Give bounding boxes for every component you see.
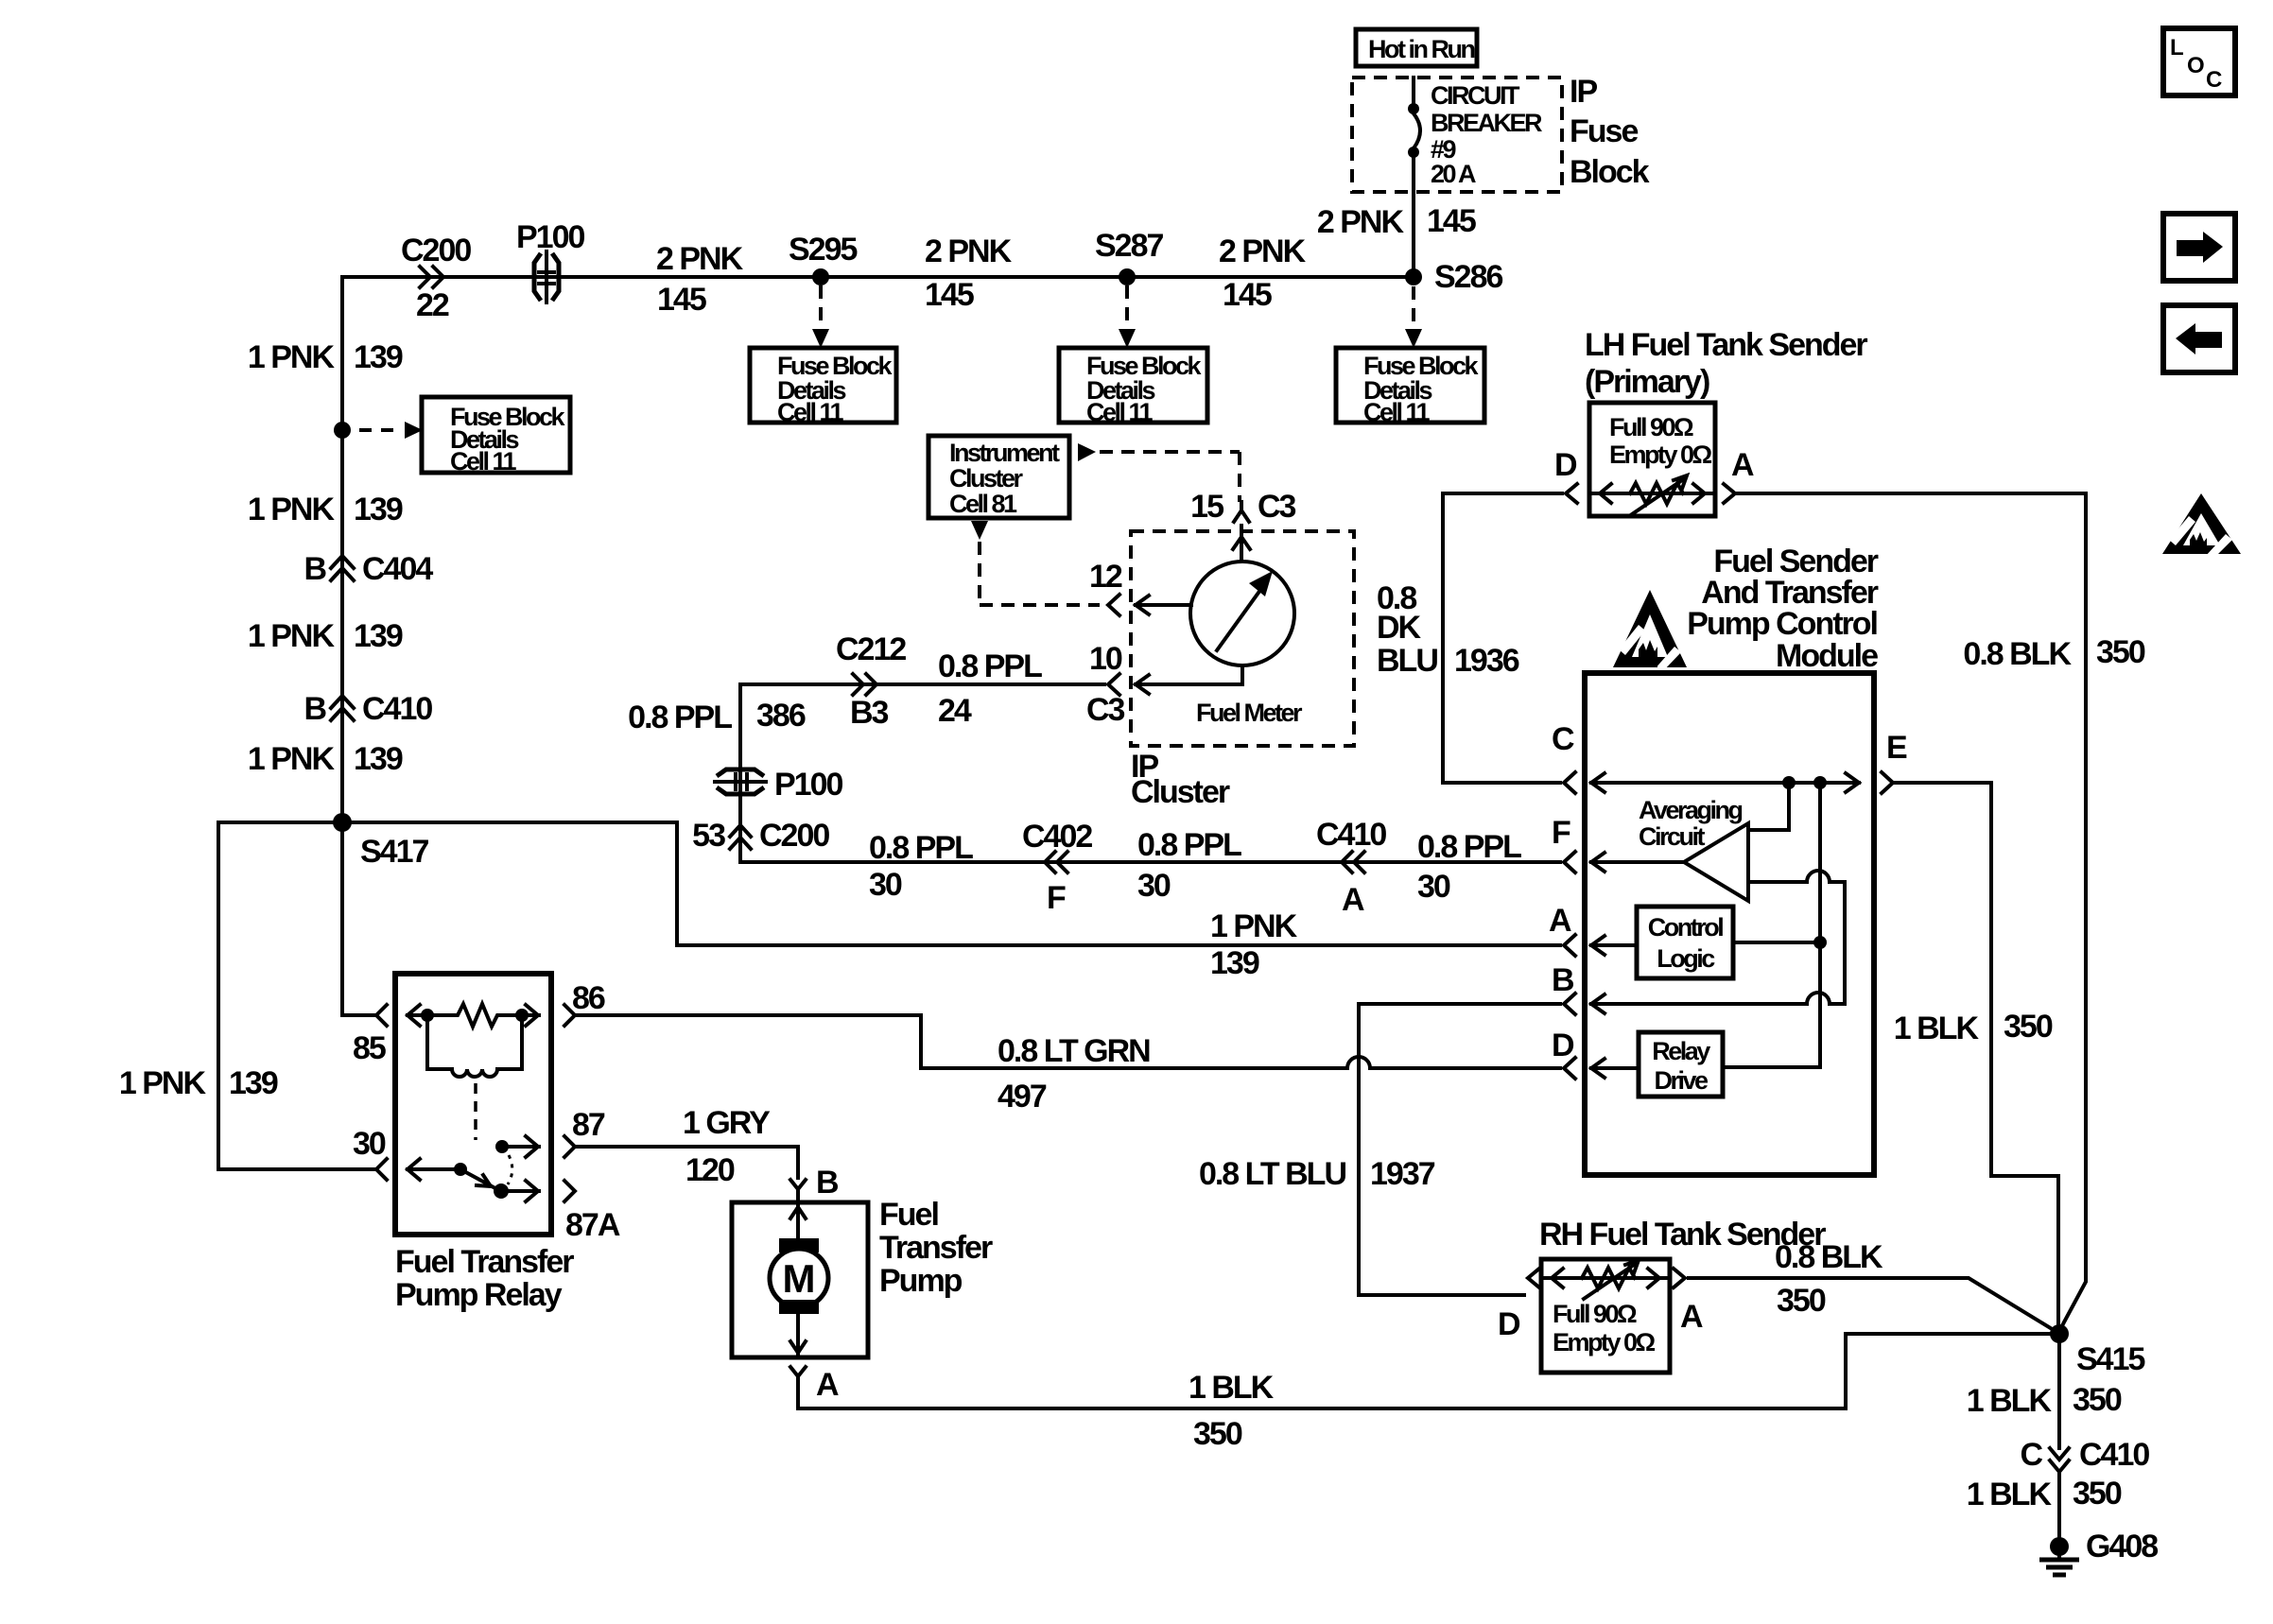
svg-text:86: 86 bbox=[572, 980, 605, 1016]
dashed drop from S286 bbox=[1405, 286, 1422, 348]
svg-text:C3: C3 bbox=[1086, 692, 1125, 728]
IP cluster dashed outline bbox=[1131, 531, 1354, 810]
svg-text:S287: S287 bbox=[1095, 228, 1163, 264]
svg-text:D: D bbox=[1552, 1028, 1574, 1063]
svg-text:1 PNK: 1 PNK bbox=[248, 618, 336, 654]
svg-text:Averaging: Averaging bbox=[1639, 796, 1743, 824]
svg-text:C200: C200 bbox=[401, 233, 471, 268]
svg-text:Drive: Drive bbox=[1654, 1066, 1709, 1095]
svg-text:139: 139 bbox=[354, 492, 403, 527]
svg-text:E: E bbox=[1886, 730, 1907, 766]
svg-text:B: B bbox=[304, 551, 326, 587]
svg-text:10: 10 bbox=[1089, 641, 1122, 677]
module pin B bbox=[1552, 962, 1845, 1014]
wire label 0.8 DK BLU 1936 bbox=[1377, 580, 1519, 679]
LH fuel tank sender label bbox=[1585, 327, 1867, 400]
svg-text:B: B bbox=[1552, 962, 1574, 998]
circuit breaker #9 20A bbox=[1408, 78, 1542, 275]
svg-text:2 PNK: 2 PNK bbox=[1219, 233, 1307, 269]
wire label 0.8 PPL 386 bbox=[628, 698, 806, 735]
connector C3 pin 15 bbox=[1190, 489, 1295, 525]
svg-text:CIRCUIT: CIRCUIT bbox=[1431, 81, 1520, 110]
relay coil resistor bbox=[408, 1004, 539, 1027]
module internal C-E bus bbox=[1591, 773, 1859, 792]
fuse block details box (left) bbox=[422, 397, 570, 475]
svg-text:Control: Control bbox=[1648, 913, 1723, 942]
svg-text:Empty 0Ω: Empty 0Ω bbox=[1609, 441, 1712, 469]
RH fuel tank sender label bbox=[1539, 1217, 1826, 1253]
fuse block details box (S286) bbox=[1336, 348, 1484, 426]
wire main feed bus bbox=[342, 277, 1414, 430]
node S287 bbox=[1095, 228, 1163, 285]
LH sender variable resistor bbox=[1589, 475, 1715, 514]
svg-text:S415: S415 bbox=[2076, 1341, 2144, 1377]
svg-text:350: 350 bbox=[2073, 1476, 2122, 1512]
svg-text:A: A bbox=[1549, 903, 1571, 939]
svg-text:1 PNK: 1 PNK bbox=[248, 339, 336, 375]
svg-text:C410: C410 bbox=[1316, 817, 1386, 853]
svg-text:F: F bbox=[1552, 815, 1570, 851]
relay coil winding bbox=[427, 1015, 522, 1140]
svg-text:C: C bbox=[2206, 67, 2222, 93]
svg-text:C: C bbox=[2020, 1437, 2042, 1473]
fuel sender and transfer pump control module label bbox=[1687, 544, 1879, 674]
svg-text:2 PNK: 2 PNK bbox=[925, 233, 1013, 269]
svg-text:Instrument: Instrument bbox=[949, 439, 1060, 467]
svg-text:15: 15 bbox=[1190, 489, 1223, 525]
svg-text:M: M bbox=[783, 1256, 816, 1301]
relay switch common bbox=[408, 1159, 509, 1199]
svg-text:C410: C410 bbox=[362, 691, 432, 727]
ESD symbol (module) bbox=[1613, 590, 1687, 673]
svg-text:G408: G408 bbox=[2086, 1529, 2158, 1564]
svg-text:1937: 1937 bbox=[1370, 1156, 1435, 1192]
svg-text:D: D bbox=[1554, 447, 1577, 483]
svg-text:C404: C404 bbox=[362, 551, 433, 587]
connector C402 pin F bbox=[1022, 819, 1092, 916]
wire label 0.8 PPL 30 (third) bbox=[1417, 829, 1521, 905]
wire S415 down bbox=[1967, 1334, 2122, 1448]
wire 0.8 LT GRN relay 86 to module D bbox=[577, 1015, 1560, 1114]
dashed drop from S295 bbox=[812, 285, 829, 348]
pin 10 entry bbox=[1086, 641, 1242, 728]
svg-text:350: 350 bbox=[2073, 1382, 2122, 1418]
svg-text:350: 350 bbox=[2096, 634, 2145, 670]
svg-text:D: D bbox=[1498, 1306, 1520, 1342]
svg-text:87A: 87A bbox=[565, 1207, 620, 1243]
wire label 0.8 PPL 24 bbox=[938, 648, 1042, 729]
svg-text:0.8 BLK: 0.8 BLK bbox=[1963, 636, 2072, 672]
wire label 1 PNK 139 (to relay 30) bbox=[119, 1065, 278, 1101]
svg-text:Cell 11: Cell 11 bbox=[1086, 398, 1154, 426]
pin 12 entry bbox=[1089, 559, 1191, 615]
svg-text:O: O bbox=[2187, 53, 2205, 78]
svg-text:C: C bbox=[1552, 721, 1574, 757]
svg-text:0.8 PPL: 0.8 PPL bbox=[1137, 827, 1241, 863]
svg-text:C402: C402 bbox=[1022, 819, 1092, 855]
instrument cluster cell 81 box bbox=[928, 436, 1069, 518]
svg-text:Cell 11: Cell 11 bbox=[1363, 398, 1431, 426]
svg-text:30: 30 bbox=[1417, 869, 1450, 905]
left arrow legend box bbox=[2163, 305, 2235, 372]
svg-text:20 A: 20 A bbox=[1431, 160, 1476, 188]
svg-text:87: 87 bbox=[572, 1107, 605, 1143]
wire label 0.8 PPL 30 (second) bbox=[1137, 827, 1241, 904]
fuel transfer pump relay box bbox=[395, 974, 574, 1313]
svg-text:DK: DK bbox=[1377, 610, 1422, 646]
svg-text:24: 24 bbox=[938, 693, 972, 729]
svg-text:30: 30 bbox=[353, 1126, 386, 1162]
svg-text:S295: S295 bbox=[789, 232, 857, 268]
wire 1 GRY relay 87 to pump B bbox=[577, 1105, 798, 1188]
wire label 0.8 PPL 30 (first) bbox=[869, 830, 973, 903]
svg-text:1 PNK: 1 PNK bbox=[248, 492, 336, 527]
dashed drop from S287 bbox=[1119, 285, 1136, 348]
connector C410 pin B bbox=[304, 691, 432, 727]
svg-text:F: F bbox=[1047, 880, 1066, 916]
svg-text:139: 139 bbox=[354, 339, 403, 375]
svg-text:Cell 11: Cell 11 bbox=[450, 447, 517, 475]
svg-text:386: 386 bbox=[756, 698, 806, 734]
IP Fuse Block dashed outline bbox=[1352, 78, 1562, 192]
module averaging circuit op-amp bbox=[1639, 783, 1845, 1004]
RH fuel tank sender box bbox=[1541, 1259, 1670, 1373]
svg-text:C410: C410 bbox=[2079, 1437, 2149, 1473]
svg-text:Fuel Meter: Fuel Meter bbox=[1196, 699, 1303, 727]
svg-text:1 BLK: 1 BLK bbox=[1967, 1383, 2053, 1419]
svg-text:0.8 PPL: 0.8 PPL bbox=[1417, 829, 1521, 865]
module pin C bbox=[1552, 721, 1575, 793]
svg-text:Cell 11: Cell 11 bbox=[777, 398, 844, 426]
relay contact 87 bbox=[495, 1136, 539, 1184]
svg-text:Pump: Pump bbox=[879, 1263, 963, 1299]
wire label 1 PNK 139 (to module A) bbox=[1210, 908, 1298, 981]
RH sender pin A bbox=[1674, 1269, 1703, 1335]
svg-text:Empty 0Ω: Empty 0Ω bbox=[1553, 1328, 1656, 1356]
wire 0.8 BLK 350 RH sender A to S415 bbox=[1689, 1239, 2054, 1330]
svg-text:0.8 BLK: 0.8 BLK bbox=[1775, 1239, 1883, 1275]
wire label 2 PNK 145 (third) bbox=[1219, 233, 1307, 313]
relay contact 87A bbox=[501, 1181, 539, 1201]
node S415 bbox=[2050, 1324, 2144, 1377]
svg-text:Fuel Transfer: Fuel Transfer bbox=[395, 1244, 574, 1280]
svg-text:Cluster: Cluster bbox=[949, 464, 1024, 492]
LH sender pin A bbox=[1724, 447, 1754, 503]
svg-text:Fuel: Fuel bbox=[879, 1197, 938, 1233]
svg-text:1936: 1936 bbox=[1454, 643, 1519, 679]
svg-text:B3: B3 bbox=[850, 695, 889, 731]
svg-text:85: 85 bbox=[353, 1030, 386, 1066]
connector C200 pin 53 bbox=[692, 818, 829, 854]
wire label 1 PNK 139 (c) bbox=[248, 618, 403, 654]
module pin A / control logic bbox=[1549, 903, 1827, 978]
svg-text:BREAKER: BREAKER bbox=[1431, 109, 1542, 137]
svg-text:S417: S417 bbox=[360, 834, 428, 870]
wire S417 to module pin A bbox=[342, 822, 1560, 945]
pump motor M bbox=[770, 1202, 828, 1357]
svg-text:Pump Control: Pump Control bbox=[1687, 606, 1877, 642]
svg-text:0.8 PPL: 0.8 PPL bbox=[938, 648, 1042, 684]
node S417 bbox=[333, 813, 428, 870]
module pin F bbox=[1552, 815, 1684, 872]
svg-text:145: 145 bbox=[657, 282, 706, 318]
module pin E bbox=[1882, 730, 1907, 793]
svg-text:B: B bbox=[304, 691, 326, 727]
svg-text:Transfer: Transfer bbox=[879, 1230, 993, 1266]
fuel transfer pump box bbox=[732, 1197, 993, 1357]
svg-text:0.8 PPL: 0.8 PPL bbox=[869, 830, 973, 866]
svg-text:1 BLK: 1 BLK bbox=[1967, 1477, 2053, 1512]
svg-text:2 PNK: 2 PNK bbox=[656, 241, 744, 277]
svg-text:145: 145 bbox=[1223, 277, 1272, 313]
svg-text:Fuse: Fuse bbox=[1570, 113, 1638, 149]
connector C410 pin C (ground leg) bbox=[2020, 1437, 2149, 1473]
svg-text:1 PNK: 1 PNK bbox=[119, 1065, 207, 1101]
LH sender pin D bbox=[1554, 447, 1577, 503]
svg-text:Pump Relay: Pump Relay bbox=[395, 1277, 563, 1313]
fuel meter gauge bbox=[1190, 561, 1303, 727]
pump connector pin B bbox=[790, 1165, 839, 1201]
wire 0.8 LT BLU module B to RH sender D bbox=[1199, 1004, 1560, 1295]
RH sender variable resistor bbox=[1541, 1260, 1670, 1299]
svg-text:Relay: Relay bbox=[1652, 1037, 1710, 1065]
relay pin 87A bbox=[564, 1181, 620, 1243]
svg-text:139: 139 bbox=[229, 1065, 278, 1101]
svg-text:30: 30 bbox=[869, 867, 902, 903]
ground G408 bbox=[2039, 1529, 2158, 1575]
LOC legend box bbox=[2163, 28, 2235, 95]
svg-text:1 BLK: 1 BLK bbox=[1894, 1011, 1980, 1046]
svg-text:2 PNK: 2 PNK bbox=[1317, 204, 1405, 240]
svg-text:S286: S286 bbox=[1434, 259, 1502, 295]
svg-text:(Primary): (Primary) bbox=[1585, 364, 1709, 400]
svg-text:0.8 LT GRN: 0.8 LT GRN bbox=[998, 1033, 1150, 1069]
svg-text:Module: Module bbox=[1776, 638, 1878, 674]
node (fuse block details tap) bbox=[334, 422, 423, 439]
svg-text:145: 145 bbox=[925, 277, 974, 313]
svg-text:C200: C200 bbox=[759, 818, 829, 854]
svg-text:1 PNK: 1 PNK bbox=[248, 741, 336, 777]
svg-text:LH Fuel Tank Sender: LH Fuel Tank Sender bbox=[1585, 327, 1867, 363]
wire label 2 PNK 145 (second) bbox=[925, 233, 1013, 313]
wire 0.8 BLK 350 LH sender A to S415 bbox=[1738, 493, 2145, 1331]
relay pin 86 bbox=[564, 980, 605, 1026]
RH sender pin D bbox=[1498, 1269, 1539, 1342]
node S286 bbox=[1405, 259, 1502, 295]
svg-text:Circuit: Circuit bbox=[1639, 822, 1706, 851]
svg-text:139: 139 bbox=[354, 741, 403, 777]
dashed pointer instrument cluster to pin 12 bbox=[971, 521, 1100, 605]
ESD symbol (right margin) bbox=[2162, 493, 2241, 560]
svg-text:P100: P100 bbox=[774, 767, 842, 803]
wire gauge to pin 15 bbox=[1233, 526, 1250, 561]
node S295 bbox=[789, 232, 857, 285]
svg-text:53: 53 bbox=[692, 818, 725, 854]
svg-text:145: 145 bbox=[1427, 203, 1476, 239]
wire label 2 PNK 145 (breaker drop) bbox=[1317, 203, 1476, 240]
svg-text:0.8 LT BLU: 0.8 LT BLU bbox=[1199, 1156, 1345, 1192]
wire C410 to ground bbox=[1967, 1472, 2122, 1539]
wire label 1 PNK 139 (b) bbox=[248, 492, 403, 527]
wire S417 to relay pin 30 bbox=[218, 822, 373, 1169]
svg-text:22: 22 bbox=[416, 287, 449, 323]
wire S417 branch to relay pin 85 bbox=[342, 1013, 373, 1017]
svg-text:B: B bbox=[816, 1165, 839, 1201]
connector C404 pin B bbox=[304, 551, 433, 587]
svg-text:IP: IP bbox=[1570, 74, 1597, 110]
fuel sender and transfer pump control module box bbox=[1585, 673, 1874, 1175]
svg-text:C3: C3 bbox=[1258, 489, 1296, 525]
LH fuel tank sender box bbox=[1589, 403, 1715, 516]
relay pin 87 bbox=[564, 1107, 605, 1157]
relay pin 30 bbox=[353, 1126, 387, 1180]
svg-text:1 PNK: 1 PNK bbox=[1210, 908, 1298, 944]
svg-text:A: A bbox=[1731, 447, 1754, 483]
svg-text:A: A bbox=[816, 1367, 839, 1403]
svg-text:A: A bbox=[1342, 882, 1364, 918]
module pin D / relay drive bbox=[1552, 1028, 1820, 1097]
wire 1 BLK pump A to S415 bbox=[798, 1334, 2052, 1452]
IP Fuse Block label bbox=[1570, 74, 1650, 190]
svg-text:L: L bbox=[2170, 35, 2184, 60]
connector C212 pin B3 bbox=[836, 631, 906, 731]
svg-text:1 GRY: 1 GRY bbox=[683, 1105, 771, 1141]
wire label 1 PNK 139 (d) bbox=[248, 741, 403, 777]
svg-text:BLU: BLU bbox=[1377, 643, 1437, 679]
svg-text:497: 497 bbox=[998, 1079, 1047, 1114]
svg-text:120: 120 bbox=[685, 1152, 735, 1188]
fuse block details box (S287) bbox=[1059, 348, 1207, 426]
fuse block details box (S295) bbox=[750, 348, 896, 426]
svg-text:350: 350 bbox=[1193, 1416, 1242, 1452]
connector C410 pin A bbox=[1316, 817, 1386, 918]
dashed pointer instrument cluster to IP cluster bbox=[1078, 443, 1240, 502]
svg-text:139: 139 bbox=[354, 618, 403, 654]
wire label 2 PNK 145 (first) bbox=[656, 241, 744, 318]
splice P100 (lower) bbox=[715, 767, 842, 803]
relay pin 85 bbox=[353, 1005, 387, 1066]
module internal vertical (C-E bus to relay drive) bbox=[1818, 783, 1822, 1067]
svg-text:350: 350 bbox=[1777, 1283, 1826, 1319]
svg-text:Full 90Ω: Full 90Ω bbox=[1609, 413, 1693, 441]
svg-text:0.8 PPL: 0.8 PPL bbox=[628, 700, 732, 735]
svg-text:139: 139 bbox=[1210, 945, 1259, 981]
svg-text:A: A bbox=[1680, 1299, 1703, 1335]
connector C200 pin 22 bbox=[401, 233, 471, 323]
svg-text:P100: P100 bbox=[516, 219, 584, 255]
svg-text:Cell 81: Cell 81 bbox=[949, 490, 1017, 518]
wire LH sender D to module C bbox=[1443, 493, 1562, 783]
svg-text:Logic: Logic bbox=[1657, 944, 1715, 973]
right arrow legend box bbox=[2163, 214, 2235, 281]
wire 0.8 PPL pin10 to C200 bbox=[740, 684, 1560, 862]
svg-text:Hot in Run: Hot in Run bbox=[1368, 35, 1474, 63]
splice P100 (bulkhead grommet) bbox=[516, 219, 584, 302]
svg-text:30: 30 bbox=[1137, 868, 1171, 904]
wire 1 BLK 350 module E to S415 bbox=[1893, 783, 2058, 1327]
svg-text:350: 350 bbox=[2004, 1009, 2053, 1045]
Hot in Run box bbox=[1356, 29, 1477, 66]
wire label 1 PNK 139 (a) bbox=[248, 339, 403, 375]
wire left vertical 1 PNK 139 bbox=[340, 430, 344, 1015]
svg-text:C212: C212 bbox=[836, 631, 906, 667]
svg-text:Block: Block bbox=[1570, 154, 1650, 190]
svg-text:12: 12 bbox=[1089, 559, 1122, 595]
svg-text:Full 90Ω: Full 90Ω bbox=[1553, 1300, 1637, 1328]
svg-text:1 BLK: 1 BLK bbox=[1189, 1370, 1275, 1406]
svg-text:Cluster: Cluster bbox=[1131, 774, 1230, 810]
pump connector pin A bbox=[790, 1367, 839, 1403]
